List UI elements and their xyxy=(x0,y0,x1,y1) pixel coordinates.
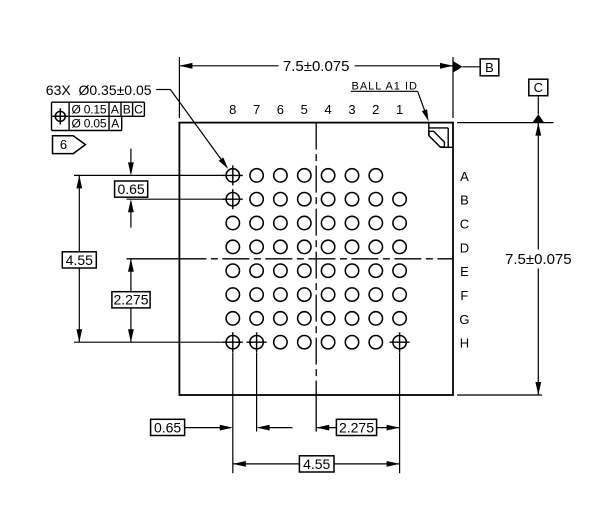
ball B4 (solder ball) xyxy=(321,193,334,206)
ball D1 (solder ball) xyxy=(393,240,406,253)
ball H4 (solder ball) xyxy=(321,336,334,349)
column 7 extension line xyxy=(256,352,258,431)
ball E2 (solder ball) xyxy=(369,264,382,277)
top dimension extension line left xyxy=(178,57,180,118)
left 2.275 dimension box xyxy=(112,292,150,308)
svg-text:F: F xyxy=(460,288,468,303)
horizontal center line (with solid left extension) xyxy=(127,258,180,260)
ball A8 (solder ball with center cross) xyxy=(226,169,239,182)
datum C filled triangle xyxy=(532,114,544,122)
svg-text:B: B xyxy=(485,60,494,75)
ball G6 (solder ball) xyxy=(274,312,287,325)
ball B8 (solder ball with center cross) xyxy=(226,193,239,206)
svg-text:4.55: 4.55 xyxy=(303,456,330,472)
svg-text:2.275: 2.275 xyxy=(339,419,374,435)
svg-text:Ø 0.05: Ø 0.05 xyxy=(72,117,107,131)
bottom 0.65 dimension box xyxy=(151,419,185,435)
position symbol xyxy=(55,111,65,121)
BALL A1 ID leader with arrowhead xyxy=(418,91,427,115)
vertical center line xyxy=(315,123,317,395)
ball G1 (solder ball) xyxy=(393,312,406,325)
row B extension line xyxy=(127,198,225,200)
svg-text:G: G xyxy=(459,312,469,327)
ball B6 (solder ball) xyxy=(274,193,287,206)
ball H8 (solder ball with center cross) xyxy=(226,336,239,349)
svg-text:C: C xyxy=(534,80,543,95)
svg-text:7: 7 xyxy=(253,102,260,117)
bottom 4.55 dimension box xyxy=(299,456,334,472)
svg-text:Ø 0.15: Ø 0.15 xyxy=(72,102,107,116)
svg-text:0.65: 0.65 xyxy=(117,181,144,197)
ball D8 (solder ball) xyxy=(226,240,239,253)
svg-text:7.5±0.075: 7.5±0.075 xyxy=(283,58,350,75)
ball C1 (solder ball) xyxy=(393,216,406,229)
ball D2 (solder ball) xyxy=(369,240,382,253)
datum C box xyxy=(529,79,548,96)
ball H5 (solder ball) xyxy=(298,336,311,349)
svg-text:4: 4 xyxy=(324,102,331,117)
datum C leader line xyxy=(537,96,539,115)
svg-text:6: 6 xyxy=(60,137,67,152)
ball E7 (solder ball) xyxy=(250,264,263,277)
ball H2 (solder ball) xyxy=(369,336,382,349)
svg-text:C: C xyxy=(460,216,469,231)
bottom-right edge extension line xyxy=(457,394,542,396)
ball F1 (solder ball) xyxy=(393,288,406,301)
ball C2 (solder ball) xyxy=(369,216,382,229)
left 4.55 dimension line xyxy=(78,175,80,251)
ball F8 (solder ball) xyxy=(226,288,239,301)
ball E6 (solder ball) xyxy=(274,264,287,277)
ball D6 (solder ball) xyxy=(274,240,287,253)
svg-text:B: B xyxy=(123,102,131,116)
svg-text:E: E xyxy=(460,264,469,279)
ball F3 (solder ball) xyxy=(345,288,358,301)
ball F6 (solder ball) xyxy=(274,288,287,301)
svg-text:63X Ø0.35±0.05: 63X Ø0.35±0.05 xyxy=(46,82,152,98)
ball G5 (solder ball) xyxy=(298,312,311,325)
ball G4 (solder ball) xyxy=(321,312,334,325)
svg-text:5: 5 xyxy=(301,102,308,117)
ball C8 (solder ball) xyxy=(226,216,239,229)
ball C4 (solder ball) xyxy=(321,216,334,229)
ball H3 (solder ball) xyxy=(345,336,358,349)
svg-text:C: C xyxy=(134,102,143,116)
ball A5 (solder ball) xyxy=(298,169,311,182)
feature control frame (position tolerance) xyxy=(52,101,145,103)
ball F7 (solder ball) xyxy=(250,288,263,301)
bottom 2.275 dimension box xyxy=(336,419,376,435)
top-right edge extension line xyxy=(457,122,554,124)
ball diameter leader with arrowhead xyxy=(156,89,170,91)
ball E4 (solder ball) xyxy=(321,264,334,277)
note 6 flag xyxy=(53,136,86,154)
ball H1 (solder ball with center cross) xyxy=(393,336,406,349)
svg-text:2.275: 2.275 xyxy=(113,292,148,308)
ball G3 (solder ball) xyxy=(345,312,358,325)
ball C3 (solder ball) xyxy=(345,216,358,229)
right dimension line 7.5±0.075 xyxy=(537,123,539,250)
top dimension line 7.5±0.075 xyxy=(179,65,278,67)
ball H6 (solder ball) xyxy=(274,336,287,349)
left 0.65 dimension arrows xyxy=(130,149,132,174)
ball F4 (solder ball) xyxy=(321,288,334,301)
ball G2 (solder ball) xyxy=(369,312,382,325)
svg-text:A: A xyxy=(111,102,119,116)
svg-text:3: 3 xyxy=(348,102,355,117)
ball D5 (solder ball) xyxy=(298,240,311,253)
ball E8 (solder ball) xyxy=(226,264,239,277)
ball C6 (solder ball) xyxy=(274,216,287,229)
bottom 0.65 dimension arrows xyxy=(185,427,231,429)
ball G7 (solder ball) xyxy=(250,312,263,325)
ball C7 (solder ball) xyxy=(250,216,263,229)
bottom 2.275 dimension line xyxy=(316,427,336,429)
ball A7 (solder ball) xyxy=(250,169,263,182)
ball A1 index chamfer mark (top-right corner) xyxy=(428,123,430,136)
ball A2 (solder ball) xyxy=(369,169,382,182)
datum B filled triangle xyxy=(453,61,463,73)
ball E3 (solder ball) xyxy=(345,264,358,277)
left 0.65 dimension box xyxy=(115,181,148,197)
left 2.275 dimension line xyxy=(130,259,132,292)
left 4.55 dimension box xyxy=(62,252,96,268)
ball E1 (solder ball) xyxy=(393,264,406,277)
svg-text:7.5±0.075: 7.5±0.075 xyxy=(505,251,572,268)
row A extension line xyxy=(74,174,224,176)
svg-text:A: A xyxy=(460,169,469,184)
bottom 4.55 dimension line xyxy=(233,463,300,465)
ball E5 (solder ball) xyxy=(298,264,311,277)
ball B1 (solder ball) xyxy=(393,193,406,206)
svg-text:2: 2 xyxy=(372,102,379,117)
ball B7 (solder ball) xyxy=(250,193,263,206)
ball G8 (solder ball) xyxy=(226,312,239,325)
ball B5 (solder ball) xyxy=(298,193,311,206)
column 1 extension line xyxy=(399,352,401,473)
svg-text:8: 8 xyxy=(229,102,236,117)
svg-text:A: A xyxy=(111,117,119,131)
ball A4 (solder ball) xyxy=(321,169,334,182)
package outline (7.5mm square, bottom view) xyxy=(179,123,453,395)
datum B box xyxy=(480,59,499,76)
svg-text:6: 6 xyxy=(277,102,284,117)
ball C5 (solder ball) xyxy=(298,216,311,229)
svg-text:1: 1 xyxy=(396,102,403,117)
row H extension line xyxy=(74,341,224,343)
top dimension extension line right xyxy=(452,57,454,118)
ball D3 (solder ball) xyxy=(345,240,358,253)
ball A6 (solder ball) xyxy=(274,169,287,182)
ball F5 (solder ball) xyxy=(298,288,311,301)
column 8 extension line xyxy=(232,352,234,473)
svg-text:D: D xyxy=(460,240,469,255)
ball D7 (solder ball) xyxy=(250,240,263,253)
ball F2 (solder ball) xyxy=(369,288,382,301)
ball B2 (solder ball) xyxy=(369,193,382,206)
svg-text:B: B xyxy=(460,193,469,208)
ball B3 (solder ball) xyxy=(345,193,358,206)
datum B leader line xyxy=(463,66,481,68)
ball A3 (solder ball) xyxy=(345,169,358,182)
ball H7 (solder ball with center cross) xyxy=(250,336,263,349)
svg-text:H: H xyxy=(460,336,469,351)
svg-text:0.65: 0.65 xyxy=(154,419,181,435)
BALL A1 ID underline xyxy=(351,90,418,92)
svg-text:4.55: 4.55 xyxy=(66,252,93,268)
ball D4 (solder ball) xyxy=(321,240,334,253)
